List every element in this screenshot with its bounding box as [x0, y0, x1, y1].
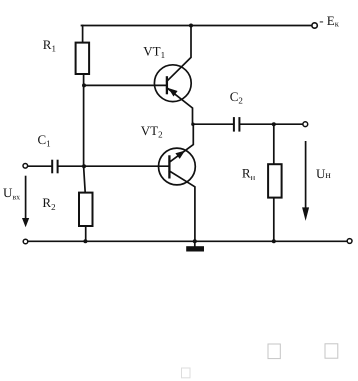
arrow Uvx (input voltage) [22, 176, 29, 228]
terminal output bottom [347, 239, 352, 244]
missing-glyph box 1 [268, 344, 280, 359]
wire C2 to output terminal [240, 123, 303, 125]
wire ground stub [194, 241, 196, 246]
terminal input bottom [23, 239, 28, 244]
capacitor C1 [52, 160, 57, 174]
svg-text:Uн: Uн [316, 166, 331, 181]
wire VT1 collector [167, 26, 191, 81]
svg-text:Rн: Rн [242, 166, 256, 183]
junction emitters / C2 wire [191, 123, 194, 126]
terminal input top [23, 164, 28, 169]
terminal -Ek [312, 23, 317, 28]
svg-text:- Eк: - Eк [319, 13, 340, 29]
wire bottom ground rail [28, 240, 347, 242]
wire VT1 base [84, 84, 167, 86]
wire input terminal to C1 [28, 165, 52, 167]
junction VT2 collector at bottom rail [193, 239, 197, 243]
junction C2 / Rn [272, 122, 276, 126]
wire C2 node down to Rn [273, 124, 275, 164]
missing-glyph box 3 [182, 368, 191, 378]
capacitor C2 [234, 117, 240, 132]
ground symbol [186, 246, 204, 251]
svg-text:VT1: VT1 [143, 43, 165, 60]
junction R1 bottom / VT1 base [82, 83, 86, 87]
svg-text:R1: R1 [43, 37, 56, 54]
svg-text:R2: R2 [42, 195, 55, 212]
resistor R2 [79, 193, 93, 226]
wire VT2 emitter [169, 124, 193, 162]
resistor Rn (load) [268, 164, 282, 197]
junction VT1 collector at top rail [189, 24, 193, 28]
transistor VT1 (PNP) [154, 65, 191, 102]
junction Rn at bottom rail [272, 239, 276, 243]
transistor VT2 (NPN) [159, 148, 196, 185]
missing-glyph box 2 [325, 344, 338, 358]
terminal output top [303, 122, 308, 127]
svg-text:C1: C1 [38, 132, 51, 149]
junction C1 / R2 / VT2 base [82, 164, 86, 168]
svg-text:VT2: VT2 [141, 123, 163, 140]
wire Rn bottom to ground rail [273, 198, 275, 241]
wire VT1 emitter [167, 88, 193, 124]
junction R2 at bottom rail [83, 239, 87, 243]
svg-text:C2: C2 [230, 89, 243, 106]
arrow Un (output voltage) [302, 141, 309, 221]
resistor R1 [76, 43, 90, 74]
wire top supply rail [82, 25, 312, 27]
wire VT2 collector [169, 171, 195, 241]
wire R1 bottom to R2 top (bias divider bus) [84, 74, 86, 193]
wire R2 bottom to ground rail [85, 226, 87, 241]
svg-text:Uвх: Uвх [3, 185, 20, 201]
wire emitter node to C2 [193, 123, 233, 125]
wire C1 to VT2 base [58, 165, 169, 167]
wire R1 to top rail [82, 26, 84, 43]
